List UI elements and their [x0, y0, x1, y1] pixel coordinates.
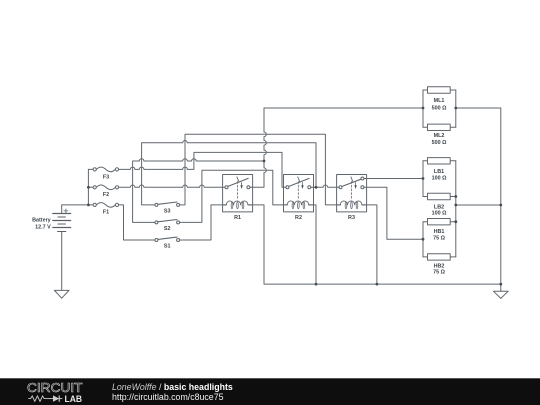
- svg-text:R2: R2: [295, 215, 302, 221]
- wire F3 output to riser then down to relay R2 contact input: [119, 152, 286, 187]
- wire relay R3 upper contact to LB lamp feed: [364, 178, 423, 180]
- CircuitLab logo: [27, 381, 83, 405]
- svg-text:LB1: LB1: [434, 169, 444, 175]
- wire relay R3 coil return to ground bus: [362, 205, 377, 284]
- lamp LB1: [423, 158, 456, 164]
- wire S2 input tap from relay R1 output riser: [133, 159, 264, 223]
- wire F1 output down to switch S1: [119, 205, 155, 240]
- wire LB pair left vertical: [422, 161, 424, 197]
- wire HB pair left vertical: [422, 222, 424, 257]
- svg-text:S2: S2: [164, 226, 171, 232]
- wire battery positive to fuse bus: [62, 205, 89, 214]
- svg-text:100 Ω: 100 Ω: [432, 176, 447, 182]
- switch S2: [155, 220, 180, 224]
- lamp HB2: [423, 254, 456, 260]
- svg-text:75 Ω: 75 Ω: [433, 270, 445, 276]
- wire relay R2 coil return to ground bus: [309, 205, 316, 284]
- svg-text:CIRCUIT: CIRCUIT: [27, 381, 83, 395]
- fuse F2: [88, 185, 118, 190]
- footer credits text: [112, 382, 233, 402]
- switch S3: [155, 202, 180, 206]
- relay R1: [223, 175, 253, 212]
- ground GND right: [493, 291, 508, 298]
- svg-text:R1: R1: [234, 215, 241, 221]
- svg-text:75 Ω: 75 Ω: [433, 236, 445, 242]
- svg-text:HB1: HB1: [434, 229, 445, 235]
- wire relay R3 lower contact to HB lamp feed: [364, 187, 423, 239]
- wire ML pair left vertical: [422, 90, 424, 127]
- switch S1: [155, 237, 180, 241]
- lamp ML1: [423, 87, 456, 93]
- svg-text:500 Ω: 500 Ω: [432, 140, 447, 146]
- wire fuse bus vertical: [87, 169, 89, 205]
- svg-text:HB2: HB2: [434, 264, 445, 270]
- wire battery negative down to ground: [61, 232, 63, 291]
- wire S1 output riser to relay R1 coil left: [180, 205, 227, 240]
- wire ML pair right vertical: [455, 90, 457, 127]
- lamp HB1: [423, 219, 456, 225]
- svg-text:100 Ω: 100 Ω: [432, 211, 447, 217]
- svg-text:LoneWolffe / basic headlights: LoneWolffe / basic headlights: [112, 382, 233, 392]
- svg-text:LB2: LB2: [434, 205, 444, 211]
- wire S3 output riser to relay R3 coil left: [180, 134, 341, 205]
- fuse F1: [88, 203, 118, 208]
- svg-text:500 Ω: 500 Ω: [432, 105, 447, 111]
- svg-text:F2: F2: [103, 192, 109, 198]
- wire F2 output to relay R1 contact input: [119, 185, 225, 187]
- wire lamp return cross wire: [456, 204, 501, 206]
- svg-text:LAB: LAB: [65, 394, 83, 405]
- relay R3: [337, 175, 367, 212]
- wire relay R2 output to relay R3 contact input: [311, 185, 339, 187]
- lamp ML2: [423, 124, 456, 130]
- svg-text:R3: R3: [348, 215, 355, 221]
- wire S2 output riser to relay R2 coil left: [180, 170, 288, 222]
- wire S3 input tap from relay R2 output: [142, 141, 316, 205]
- svg-text:ML1: ML1: [434, 98, 445, 104]
- svg-text:Battery: Battery: [32, 218, 51, 224]
- lamp LB2: [423, 193, 456, 199]
- svg-text:http://circuitlab.com/c8uce75: http://circuitlab.com/c8uce75: [112, 392, 224, 402]
- battery BAT1 plates: [53, 209, 71, 232]
- relay R2: [284, 175, 314, 212]
- fuse F3: [88, 167, 118, 172]
- svg-text:F3: F3: [103, 174, 109, 180]
- wire ML feed out to main right bus: [456, 108, 501, 291]
- svg-text:S1: S1: [164, 244, 171, 250]
- wire relay R1 coil return to ground bus: [248, 205, 501, 284]
- ground GND left: [54, 290, 69, 298]
- wire LB HB pairs right vertical: [455, 161, 457, 257]
- footer bar: [0, 378, 540, 405]
- svg-text:F1: F1: [103, 209, 109, 215]
- wire relay R1 output riser to ML lamp feed: [250, 108, 423, 187]
- svg-text:S3: S3: [164, 209, 171, 215]
- svg-text:12.7 V: 12.7 V: [35, 225, 51, 231]
- svg-text:ML2: ML2: [434, 133, 445, 139]
